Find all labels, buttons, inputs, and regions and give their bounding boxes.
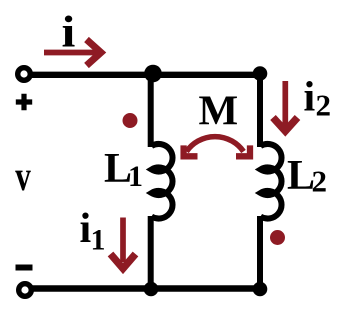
wire bottom rail (31, 285, 260, 291)
wire L1 branch bottom (148, 216, 154, 289)
wire L1 branch top (148, 75, 154, 148)
wire top rail (30, 72, 260, 78)
arrow current i1 (111, 218, 136, 269)
svg-text:i: i (62, 8, 76, 57)
label minus sign (16, 265, 33, 271)
arrow mutual coupling right head (236, 145, 250, 156)
node junction top of L1 (144, 65, 162, 83)
polarity dot L2 (270, 230, 285, 245)
wire L2 branch top (257, 75, 263, 148)
terminal top-left (18, 68, 31, 81)
arrow current i (44, 40, 101, 66)
svg-text:2: 2 (316, 88, 332, 123)
arrow mutual coupling M arc (187, 137, 244, 152)
node junction bottom of L1 (144, 282, 159, 297)
node corner top-right (253, 66, 268, 81)
arrow current i2 (273, 81, 298, 131)
wire L2 branch bottom (257, 216, 263, 289)
svg-text:2: 2 (312, 164, 328, 199)
svg-text:M: M (199, 89, 239, 135)
arrow mutual coupling left head (184, 145, 198, 156)
svg-text:v: v (15, 153, 31, 200)
inductor L1 (152, 144, 173, 219)
svg-text:i: i (304, 75, 316, 121)
svg-text:1: 1 (128, 160, 143, 193)
terminal bottom-left (19, 284, 32, 297)
node corner bottom-right (253, 282, 268, 297)
inductor L2 (261, 144, 282, 219)
svg-text:1: 1 (91, 224, 106, 257)
label plus sign (16, 94, 32, 110)
polarity dot L1 (123, 113, 138, 128)
